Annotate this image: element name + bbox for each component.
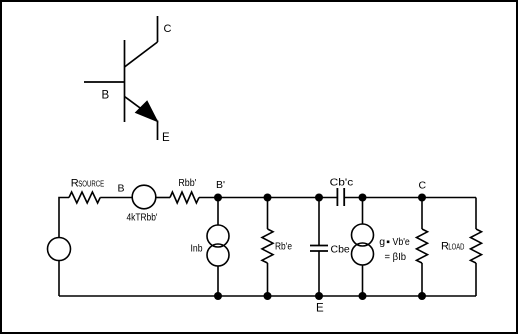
wire Cbe to bottom rail: [318, 251, 320, 296]
capacitor Cbe: [310, 246, 328, 252]
junction dot bottom of Inb: [214, 292, 222, 300]
svg-text:LOAD: LOAD: [448, 243, 464, 252]
junction dot bottom of gmVb'e: [359, 292, 367, 300]
label g · Vb'e: [379, 236, 410, 248]
svg-text:Vb'e: Vb'e: [393, 236, 410, 248]
wire Cb'c right plate to node C region: [344, 197, 476, 199]
svg-text:Rbb': Rbb': [178, 178, 196, 189]
wire bottom rail (node E): [59, 295, 476, 297]
wire collector resistor to bottom rail: [421, 263, 423, 296]
junction dot bottom of collector resistor: [418, 292, 426, 300]
wire B' down to Inb: [217, 198, 219, 226]
wire RLOAD to bottom rail: [475, 263, 477, 296]
wire down to Cbe: [318, 198, 320, 246]
svg-text:Inb: Inb: [191, 243, 203, 255]
svg-text:4kTRbb': 4kTRbb': [127, 213, 158, 224]
wire RSOURCE to noise source: [100, 197, 132, 199]
svg-text:E: E: [316, 303, 324, 315]
wire gmVb'e to bottom rail: [362, 265, 364, 296]
resistor Rb'e: [262, 229, 273, 263]
junction dot top of gmVb'e source: [359, 194, 367, 202]
wire down to gmVb'e source: [362, 198, 364, 225]
source Vs circle (left branch): [48, 238, 71, 261]
wire node C down to collector resistor: [421, 198, 423, 230]
transistor Q1 (NPN symbol): [84, 16, 158, 140]
resistor RSOURCE: [69, 192, 100, 203]
junction dot top of Rb'e: [264, 194, 272, 202]
resistor RLOAD: [471, 229, 482, 263]
svg-text:E: E: [162, 132, 170, 144]
wire Vs to bottom rail: [58, 261, 60, 297]
wire Rbb' to node B' and on to Cb'c left plate: [199, 197, 337, 199]
transistor emitter arrow: [136, 102, 157, 122]
wire noise source to Rbb': [156, 197, 170, 199]
label RSOURCE: [71, 177, 104, 189]
resistor (collector branch, unlabeled): [417, 229, 428, 263]
svg-text:C: C: [164, 23, 172, 35]
wire right branch down from top rail: [475, 198, 477, 230]
node B' junction dot: [214, 194, 222, 202]
svg-text:= βIb: = βIb: [385, 251, 407, 263]
node C junction dot: [418, 194, 426, 202]
junction dot bottom of Cbe: [315, 292, 323, 300]
svg-text:Cb'c: Cb'c: [330, 177, 354, 189]
resistor Rbb': [170, 192, 199, 203]
svg-text:C: C: [419, 180, 427, 192]
svg-text:Rb'e: Rb'e: [275, 241, 292, 253]
junction dot bottom of Rb'e: [264, 292, 272, 300]
junction dot top of Cbe: [315, 194, 323, 202]
svg-text:Cbe: Cbe: [331, 244, 350, 256]
svg-text:SOURCE: SOURCE: [78, 179, 104, 188]
wire down to Rb'e: [267, 198, 269, 230]
svg-text:B: B: [102, 90, 110, 102]
wire Inb to bottom rail: [217, 266, 219, 296]
wire Rb'e to bottom rail: [267, 263, 269, 296]
current source Inb (two circles): [207, 225, 229, 266]
controlled current source g·Vb'e (two circles): [352, 224, 374, 265]
wire top rail left segment: [59, 198, 69, 238]
svg-text:B': B': [216, 179, 225, 191]
svg-text:B: B: [118, 183, 125, 195]
noise voltage source 4kTRbb': [132, 185, 156, 209]
capacitor Cb'c: [337, 188, 344, 206]
label RLOAD: [441, 241, 465, 253]
svg-text:g: g: [379, 236, 385, 248]
